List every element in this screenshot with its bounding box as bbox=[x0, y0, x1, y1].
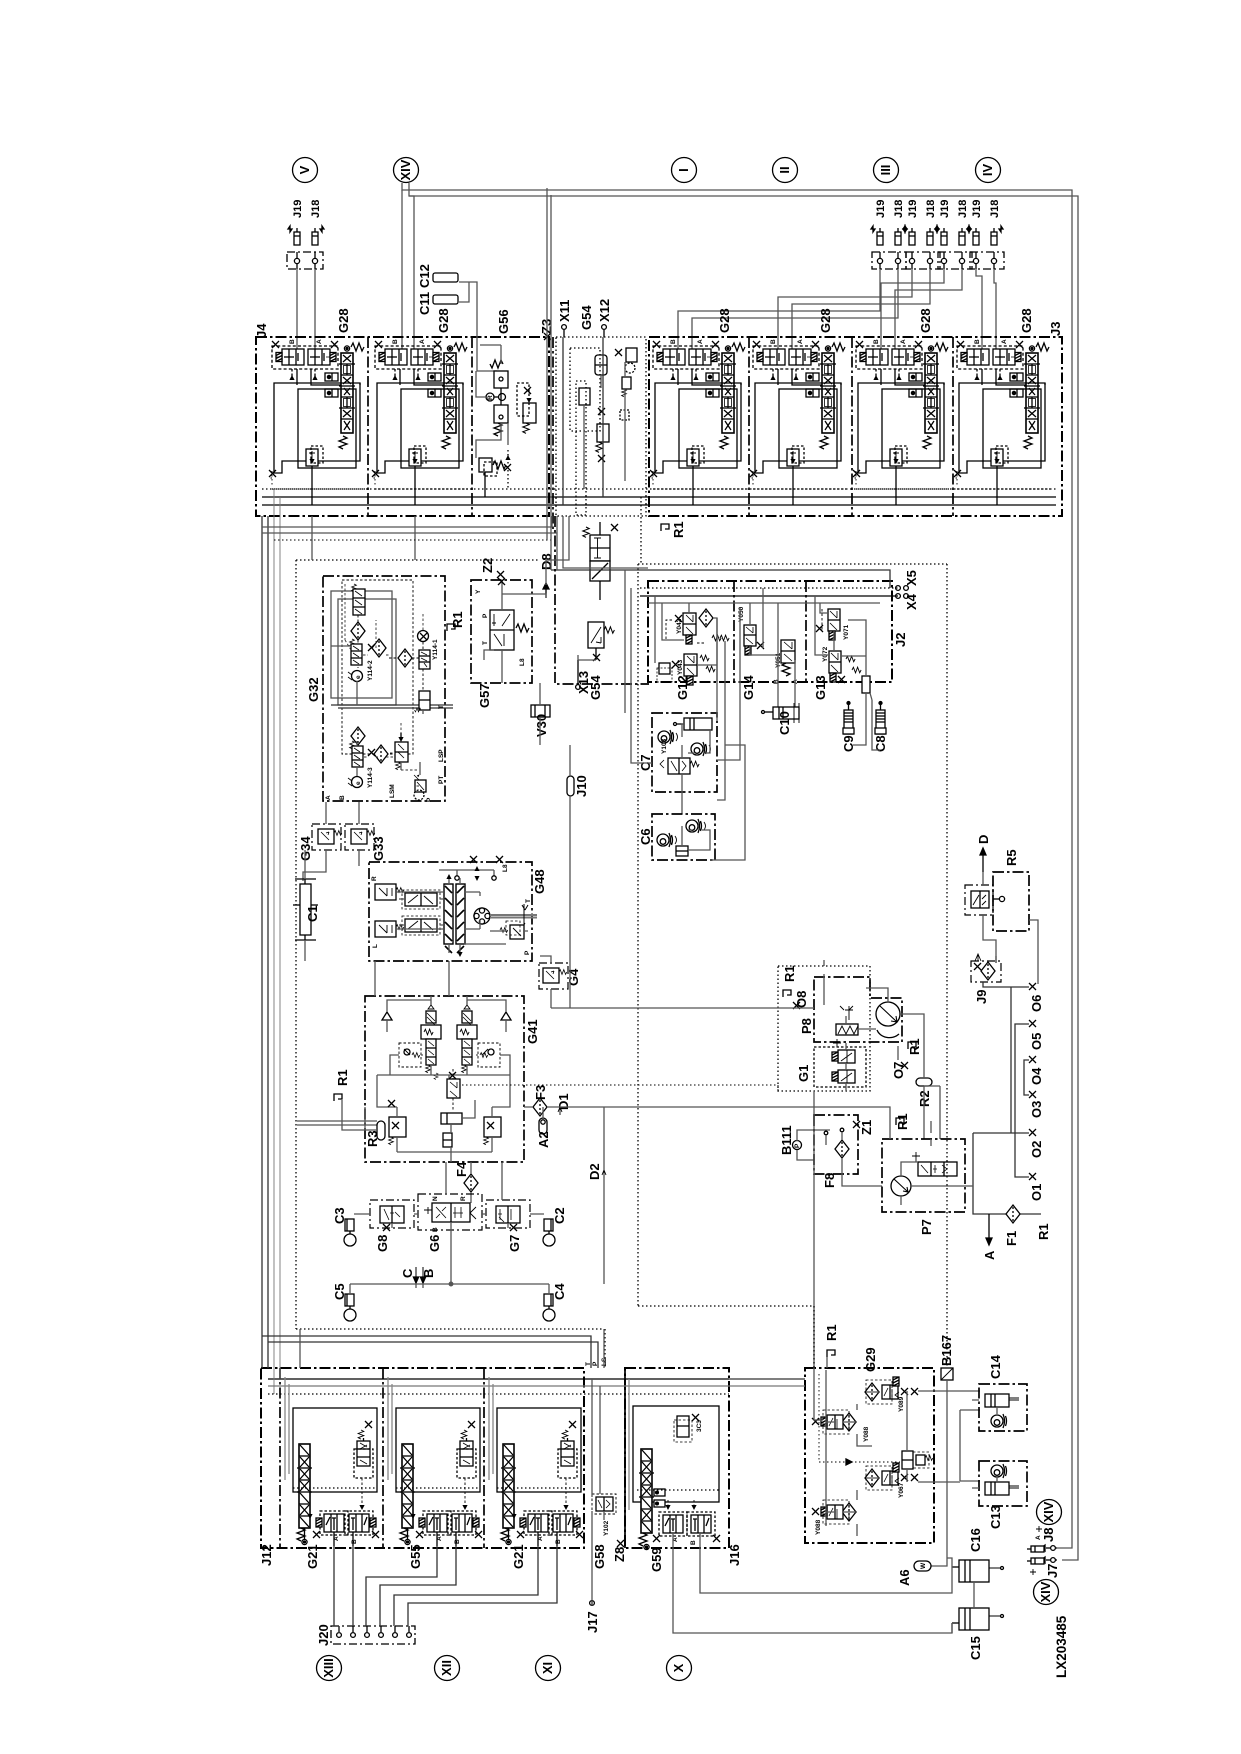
svg-text:G14: G14 bbox=[741, 675, 756, 700]
wires to C7 area bbox=[625, 570, 652, 763]
X mark Z2 bbox=[497, 571, 504, 578]
svg-text:T: T bbox=[525, 899, 532, 903]
svg-text:J12: J12 bbox=[259, 1544, 274, 1566]
svg-text:A: A bbox=[325, 795, 332, 800]
spring box P8 bbox=[836, 1024, 876, 1035]
wire pin to G28 B bbox=[296, 269, 298, 349]
compensator valve G32 bbox=[395, 733, 408, 770]
box C7 bbox=[652, 713, 717, 792]
cylinder C11 bbox=[433, 273, 458, 282]
svg-text:Y114-2: Y114-2 bbox=[367, 660, 374, 681]
svg-text:Y072: Y072 bbox=[822, 646, 829, 662]
G48 steering shaft bbox=[490, 904, 537, 933]
svg-text:G21: G21 bbox=[511, 1544, 526, 1569]
box G34 bbox=[298, 824, 342, 861]
box J2 bbox=[648, 581, 892, 682]
relief valve upper G56 bbox=[494, 371, 508, 388]
svg-text:C6: C6 bbox=[638, 828, 653, 845]
plug arrows J7/J8 bbox=[1036, 1526, 1042, 1532]
label circle X bbox=[667, 1656, 692, 1681]
valve Y114-2 bbox=[348, 584, 374, 682]
svg-text:Y089: Y089 bbox=[898, 1396, 905, 1412]
svg-text:C13: C13 bbox=[988, 1505, 1003, 1529]
valve G57 bbox=[475, 578, 546, 683]
R1 G29 bbox=[824, 1324, 839, 1357]
svg-text:III: III bbox=[878, 165, 893, 176]
wires G14 bbox=[750, 588, 795, 708]
label circle XIII bbox=[317, 1656, 342, 1681]
svg-text:R: R bbox=[460, 1196, 467, 1201]
dividers J2 bbox=[733, 581, 735, 682]
port X11 bbox=[557, 300, 572, 337]
A6 bbox=[897, 1561, 931, 1586]
G41 pressure valve R bbox=[457, 1000, 477, 1075]
svg-text:Z1: Z1 bbox=[859, 1120, 874, 1135]
svg-text:G28: G28 bbox=[336, 308, 351, 333]
C6 contents bbox=[657, 819, 710, 856]
svg-text:II: II bbox=[777, 166, 792, 173]
C2 bbox=[543, 1207, 567, 1246]
svg-text:J2: J2 bbox=[893, 633, 908, 647]
connector J7 bbox=[1027, 1557, 1060, 1578]
svg-text:C1: C1 bbox=[305, 905, 320, 922]
divider Z3 bbox=[552, 337, 554, 530]
small comp top right bbox=[677, 1416, 689, 1437]
valve Y043 bbox=[657, 654, 697, 685]
wire LS dotted into G58 bbox=[604, 1329, 606, 1368]
svg-text:C16: C16 bbox=[968, 1528, 983, 1552]
box J16 bbox=[625, 1368, 729, 1548]
svg-text:PT: PT bbox=[438, 776, 445, 784]
small rect G54 bbox=[579, 388, 590, 405]
G58 contents: valve Y102 bbox=[585, 1357, 616, 1600]
dotted LS to pump bbox=[462, 1085, 778, 1091]
svg-text:LSP: LSP bbox=[438, 749, 445, 762]
svg-text:G48: G48 bbox=[532, 869, 547, 894]
svg-text:G6: G6 bbox=[427, 1235, 442, 1252]
valve lower G56 bbox=[494, 405, 508, 423]
mid right valve G54 bbox=[622, 377, 631, 389]
arrows G48 bbox=[446, 874, 451, 879]
svg-text:L8: L8 bbox=[502, 864, 509, 872]
svg-text:A: A bbox=[1035, 1535, 1042, 1540]
G59 contents bbox=[629, 1379, 720, 1550]
wire loops G32 bbox=[331, 591, 392, 698]
svg-text:J18: J18 bbox=[989, 200, 1001, 218]
svg-text:O1: O1 bbox=[1029, 1184, 1044, 1201]
dotted boxes G54 bbox=[570, 348, 600, 431]
svg-text:R1: R1 bbox=[907, 1038, 922, 1055]
dividers J12 bbox=[279, 1368, 281, 1548]
svg-text:J18: J18 bbox=[957, 200, 969, 218]
connector boxes x4 bbox=[872, 252, 906, 269]
dotted box P8/G1 bbox=[778, 966, 870, 1091]
svg-text:G13: G13 bbox=[813, 675, 828, 700]
connector J8 bbox=[1027, 1528, 1057, 1552]
wires G59 to cylinders bbox=[673, 1542, 952, 1633]
svg-text:X12: X12 bbox=[597, 299, 612, 322]
svg-text:LX203485: LX203485 bbox=[1054, 1615, 1069, 1678]
box G41 bbox=[365, 996, 524, 1162]
divider G28/G28 J4 bbox=[367, 337, 369, 516]
label circle V bbox=[293, 158, 318, 183]
label circle I bbox=[672, 158, 697, 183]
svg-text:T: T bbox=[438, 705, 445, 709]
wires G32 bbox=[331, 646, 423, 776]
svg-text:L: L bbox=[372, 944, 379, 948]
svg-text:C10: C10 bbox=[777, 711, 792, 735]
side valve G56 bbox=[523, 403, 536, 423]
bus above J2 bbox=[640, 587, 898, 589]
svg-text:P: P bbox=[482, 613, 489, 618]
valve Y051 bbox=[773, 640, 799, 684]
valve section G55 bbox=[388, 1377, 482, 1546]
label circle II bbox=[773, 158, 798, 183]
svg-text:J19: J19 bbox=[939, 200, 951, 218]
C3 bbox=[332, 1207, 356, 1246]
svg-text:Y114-3: Y114-3 bbox=[367, 767, 374, 788]
svg-text:D2: D2 bbox=[587, 1163, 602, 1180]
svg-text:XIV: XIV bbox=[1038, 1581, 1053, 1602]
box G54 section dotted bbox=[556, 337, 646, 516]
wires C15/C16 bbox=[947, 1558, 974, 1633]
svg-text:R1: R1 bbox=[895, 1113, 910, 1130]
port X12 bbox=[597, 299, 612, 337]
G41 check L bbox=[382, 1000, 431, 1032]
wire XIV bus outer bbox=[402, 183, 1072, 1548]
G48 wires bbox=[396, 878, 528, 953]
G41 pilot box L bbox=[399, 1043, 421, 1067]
plug J19 bbox=[288, 226, 300, 245]
wires P8 bbox=[824, 960, 846, 1091]
svg-text:G7: G7 bbox=[507, 1235, 522, 1252]
G41 pressure valve L bbox=[421, 1000, 441, 1075]
svg-text:O6: O6 bbox=[1029, 995, 1044, 1012]
wire F8 down bbox=[842, 1168, 882, 1186]
G59 spool bbox=[639, 1449, 654, 1533]
accumulator C8 bbox=[870, 693, 888, 752]
F4 bbox=[454, 1161, 478, 1203]
svg-text:V: V bbox=[297, 165, 312, 174]
solenoids G1 bbox=[832, 1039, 855, 1083]
svg-text:T: T bbox=[482, 641, 489, 645]
port J10 bbox=[567, 745, 589, 830]
svg-text:F1: F1 bbox=[1004, 1231, 1019, 1246]
svg-text:B: B bbox=[339, 795, 346, 800]
svg-text:R1: R1 bbox=[782, 965, 797, 982]
svg-text:C2: C2 bbox=[552, 1207, 567, 1224]
svg-text:G28: G28 bbox=[717, 308, 732, 333]
svg-text:G54: G54 bbox=[588, 675, 603, 700]
gauge R G56 bbox=[486, 393, 494, 401]
wire XIV to J4-2 B pilot bbox=[401, 190, 403, 349]
svg-text:P7: P7 bbox=[919, 1219, 934, 1235]
svg-text:O5: O5 bbox=[1029, 1033, 1044, 1050]
svg-text:C11: C11 bbox=[417, 292, 432, 315]
svg-text:J4: J4 bbox=[254, 323, 269, 338]
wire pin to G28 A bbox=[314, 269, 316, 349]
svg-text:F4: F4 bbox=[454, 1161, 469, 1177]
svg-text:G28: G28 bbox=[436, 308, 451, 333]
bus P bbox=[262, 496, 1056, 498]
bus J16 to G29 bbox=[729, 1378, 805, 1380]
box C6 bbox=[652, 814, 715, 860]
svg-text:G58: G58 bbox=[592, 1544, 607, 1569]
svg-text:J16: J16 bbox=[727, 1544, 742, 1566]
port D8 arrow bbox=[543, 583, 549, 598]
box F8 bbox=[814, 1115, 858, 1188]
svg-text:P: P bbox=[426, 797, 433, 802]
svg-text:G56: G56 bbox=[496, 309, 511, 334]
D2 bbox=[587, 1107, 606, 1284]
svg-text:J10: J10 bbox=[574, 775, 589, 797]
label Z1 bbox=[853, 1120, 874, 1135]
box G1 bbox=[814, 1047, 866, 1087]
plug J18 bbox=[312, 226, 324, 245]
svg-text:P8: P8 bbox=[799, 1018, 814, 1034]
svg-text:R5: R5 bbox=[1004, 849, 1019, 866]
C5 bbox=[332, 1283, 356, 1321]
label circle XIV bottom a bbox=[1037, 1500, 1062, 1525]
svg-text:e: e bbox=[355, 675, 362, 679]
svg-text:O4: O4 bbox=[1029, 1067, 1044, 1085]
svg-text:R1: R1 bbox=[1036, 1223, 1051, 1240]
svg-text:R1: R1 bbox=[671, 521, 686, 538]
svg-text:P: P bbox=[524, 950, 531, 955]
svg-text:N: N bbox=[432, 1196, 439, 1201]
G48 left valves bbox=[371, 876, 404, 948]
valve w spring G54 bbox=[597, 424, 609, 442]
G48 gerotor motor bbox=[474, 908, 490, 924]
svg-text:J8: J8 bbox=[1041, 1528, 1056, 1542]
valve section G28 III bbox=[852, 339, 949, 505]
svg-text:Y088: Y088 bbox=[815, 1519, 822, 1535]
wires C7/C6 right bbox=[710, 608, 745, 860]
big dotted frame middle bbox=[296, 560, 947, 1368]
svg-text:G54: G54 bbox=[579, 305, 594, 330]
G41 side valve L bbox=[389, 1107, 406, 1152]
divider G58 left bbox=[624, 1368, 626, 1548]
svg-text:J18: J18 bbox=[310, 200, 322, 218]
svg-text:X4: X4 bbox=[904, 593, 919, 610]
svg-text:G28: G28 bbox=[918, 308, 933, 333]
inner dotted box G32 bbox=[342, 580, 413, 754]
pump P8 bbox=[866, 988, 900, 1038]
valve section G28 IV bbox=[953, 339, 1050, 505]
valve stack mid 2 bbox=[588, 622, 614, 661]
svg-text:W: W bbox=[920, 1562, 927, 1569]
svg-text:R3: R3 bbox=[365, 1130, 380, 1147]
B111 bbox=[779, 1125, 830, 1160]
R1 P8 bbox=[782, 965, 797, 997]
box P8 bbox=[814, 977, 902, 1042]
port J17 bbox=[585, 1601, 600, 1633]
svg-text:G32: G32 bbox=[306, 677, 321, 702]
long horizontals below top band bbox=[262, 527, 557, 533]
svg-text:J19: J19 bbox=[907, 200, 919, 218]
box J3 bbox=[649, 337, 1062, 516]
svg-text:X: X bbox=[671, 1663, 686, 1672]
svg-text:XIII: XIII bbox=[321, 1658, 336, 1678]
svg-text:C14: C14 bbox=[988, 1354, 1003, 1379]
svg-text:G33: G33 bbox=[371, 836, 386, 861]
svg-text:LSM: LSM bbox=[389, 784, 396, 798]
valve Y088b bbox=[812, 1500, 856, 1535]
cylinder C12 bbox=[433, 295, 458, 304]
wires G54 bbox=[563, 337, 603, 505]
A2 bbox=[536, 1107, 551, 1148]
R3 bbox=[342, 1100, 385, 1147]
svg-text:G59: G59 bbox=[649, 1547, 664, 1572]
F3 / D1 bbox=[524, 1085, 890, 1139]
band bus lines bottom bbox=[268, 1378, 729, 1380]
wire R3 feed bbox=[297, 1121, 377, 1125]
svg-text:R1: R1 bbox=[450, 611, 465, 628]
svg-text:Y050: Y050 bbox=[738, 606, 745, 622]
valve Y114-3 bbox=[348, 727, 388, 788]
svg-text:G8: G8 bbox=[375, 1235, 390, 1252]
accumulator C9 bbox=[841, 693, 866, 752]
G48 right small valve bbox=[500, 921, 524, 939]
wires sections to J20 bbox=[334, 1546, 557, 1633]
svg-text:XIV: XIV bbox=[398, 159, 413, 180]
ports X4 X5 bbox=[896, 570, 919, 610]
box G48 bbox=[369, 862, 532, 961]
X11/X12 drop wires bbox=[546, 516, 648, 585]
valve Y050 bbox=[738, 606, 764, 655]
C-wires mid to bottom bbox=[375, 961, 502, 1200]
G41 pilot box R bbox=[478, 1043, 500, 1067]
svg-text:X11: X11 bbox=[557, 300, 572, 322]
throttles G13 bbox=[846, 656, 855, 662]
valve Y042 bbox=[675, 609, 713, 644]
svg-text:Y103: Y103 bbox=[661, 738, 668, 754]
small right valve G54 bbox=[620, 410, 629, 420]
svg-text:F8: F8 bbox=[822, 1173, 837, 1188]
label circle IV bbox=[976, 158, 1001, 183]
G41 check R bbox=[467, 1000, 511, 1032]
svg-text:J18: J18 bbox=[925, 200, 937, 218]
svg-text:J19: J19 bbox=[875, 200, 887, 218]
svg-text:O2: O2 bbox=[1029, 1141, 1044, 1158]
R1 G41 bbox=[334, 1069, 350, 1101]
valve Y088a bbox=[812, 1410, 870, 1442]
svg-text:J19: J19 bbox=[292, 200, 304, 218]
valve Y071 bbox=[816, 609, 850, 640]
svg-text:Y114-1: Y114-1 bbox=[432, 639, 439, 660]
dash-dot G54 extension bbox=[555, 516, 649, 684]
svg-text:C9: C9 bbox=[841, 735, 856, 752]
svg-text:J18: J18 bbox=[893, 200, 905, 218]
O port bracket wires bbox=[973, 982, 1041, 1214]
cylinder C16 bbox=[952, 1528, 1004, 1582]
svg-text:J7: J7 bbox=[1045, 1564, 1060, 1578]
dotted link left bbox=[274, 539, 552, 541]
valve V30 bbox=[531, 683, 550, 745]
box G7 bbox=[486, 1200, 530, 1252]
box J4 bbox=[256, 337, 549, 516]
svg-text:XII: XII bbox=[439, 1660, 454, 1676]
G41 center valve bbox=[447, 1069, 460, 1110]
svg-text:L8: L8 bbox=[519, 658, 526, 666]
svg-text:G21: G21 bbox=[305, 1544, 320, 1569]
X mark Z3 bbox=[544, 333, 551, 340]
G41 side valve R bbox=[484, 1107, 501, 1152]
wire mid stack bbox=[578, 655, 596, 660]
svg-text:X5: X5 bbox=[904, 570, 919, 586]
G48 top loop bbox=[439, 866, 496, 881]
valve Y072 bbox=[822, 646, 845, 683]
box C13 bbox=[972, 1461, 1027, 1529]
bus dotted LS bbox=[262, 488, 1056, 490]
port D arrow bbox=[976, 835, 991, 872]
valve section G28 II bbox=[749, 339, 846, 505]
wires G13 bbox=[815, 596, 866, 676]
box G57 bbox=[471, 580, 532, 683]
wire J17 bbox=[591, 1600, 593, 1606]
G29 wires bbox=[814, 1091, 980, 1536]
wires G12 bbox=[655, 596, 725, 682]
divider G28/G56 J4 bbox=[471, 337, 473, 516]
svg-text:Y088: Y088 bbox=[863, 1426, 870, 1442]
G41 wires bbox=[377, 996, 510, 1162]
label circle XI bbox=[536, 1656, 561, 1681]
bus T G32 bbox=[331, 705, 453, 708]
valve stack mid 1 bbox=[583, 522, 618, 600]
wire P feed G58 bbox=[268, 1342, 598, 1368]
wires G33/G34 bbox=[303, 802, 359, 881]
B167 bbox=[931, 1335, 954, 1566]
svg-text:J3: J3 bbox=[1048, 322, 1063, 336]
relief valve G29 bbox=[902, 1451, 933, 1469]
svg-text:G1: G1 bbox=[796, 1065, 811, 1082]
R1 under J3-I bbox=[661, 521, 686, 538]
wires G56 bbox=[476, 345, 508, 458]
connector box J4 pilots bbox=[287, 252, 323, 269]
svg-text:Y071: Y071 bbox=[843, 624, 850, 640]
small rect G13 out bbox=[862, 676, 870, 693]
plugs x8 bbox=[877, 228, 883, 245]
wires bank to G28 I..IV bbox=[678, 269, 996, 349]
svg-text:J19: J19 bbox=[971, 200, 983, 218]
svg-text:e: e bbox=[355, 781, 362, 785]
wires below middle to bottom band bbox=[300, 1329, 604, 1368]
label circle XII bbox=[435, 1656, 460, 1681]
svg-text:Y067: Y067 bbox=[898, 1482, 905, 1498]
cylinder C10 bbox=[762, 703, 800, 735]
box G8 bbox=[370, 1200, 414, 1252]
svg-text:A6: A6 bbox=[897, 1569, 912, 1586]
svg-text:P: P bbox=[794, 1143, 801, 1148]
svg-text:B: B bbox=[773, 679, 780, 684]
dividers J3 bbox=[748, 337, 750, 516]
valve small P8 bbox=[840, 1006, 853, 1020]
svg-text:Y102: Y102 bbox=[603, 1520, 610, 1536]
svg-text:Y: Y bbox=[475, 589, 482, 594]
svg-text:C4: C4 bbox=[552, 1283, 567, 1300]
box G6 bbox=[418, 1194, 482, 1252]
wire XIV bus inner bbox=[409, 183, 1078, 1560]
box G32 bbox=[323, 576, 445, 801]
svg-text:B: B bbox=[432, 1227, 439, 1232]
valve section G21-1 bbox=[285, 1377, 379, 1546]
P valve G32 bbox=[414, 775, 426, 800]
svg-text:A: A bbox=[982, 1250, 997, 1260]
svg-text:J17: J17 bbox=[585, 1611, 600, 1633]
svg-text:R: R bbox=[487, 395, 494, 400]
port X13 bbox=[576, 660, 591, 694]
svg-text:R1: R1 bbox=[335, 1069, 350, 1086]
